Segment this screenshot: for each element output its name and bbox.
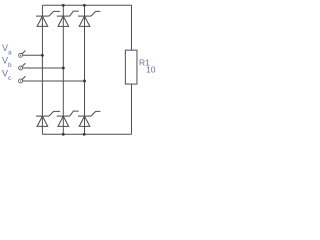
thyristor T5 (bottom, col2)	[57, 111, 79, 126]
junction phase A col1	[41, 54, 44, 57]
svg-text:Vb: Vb	[2, 56, 12, 69]
wire phase B	[22, 67, 63, 69]
thyristor T3 (top, col3)	[78, 11, 100, 26]
wire right bottom (load to bus)	[131, 83, 133, 134]
wire leg column 1	[41, 5, 43, 134]
thyristor T6 (bottom, col3)	[78, 111, 100, 126]
wire top bus	[42, 4, 131, 6]
terminal Va circle	[19, 51, 26, 58]
terminal Vb circle	[19, 63, 26, 70]
wire phase A	[22, 54, 42, 56]
thyristor T4 (bottom, col1)	[36, 111, 60, 126]
junction top bus col2	[62, 4, 65, 7]
terminal Vc circle	[19, 76, 26, 83]
svg-text:Va: Va	[2, 43, 12, 56]
junction top bus col3	[83, 4, 86, 7]
wire phase C	[22, 80, 84, 82]
wire leg column 3	[84, 5, 86, 134]
wire right top (bus to load)	[131, 5, 133, 51]
svg-text:10: 10	[146, 64, 156, 74]
thyristor T1 (top, col1)	[36, 11, 60, 26]
junction bottom bus col3	[83, 133, 86, 136]
junction phase C col3	[83, 80, 86, 83]
junction bottom bus col2	[62, 133, 65, 136]
svg-text:Vc: Vc	[2, 69, 12, 82]
resistor R load	[125, 50, 137, 84]
thyristor T2 (top, col2)	[57, 11, 79, 26]
junction phase B col2	[62, 67, 65, 70]
wire bottom bus	[42, 133, 131, 135]
wire leg column 2	[62, 5, 64, 134]
